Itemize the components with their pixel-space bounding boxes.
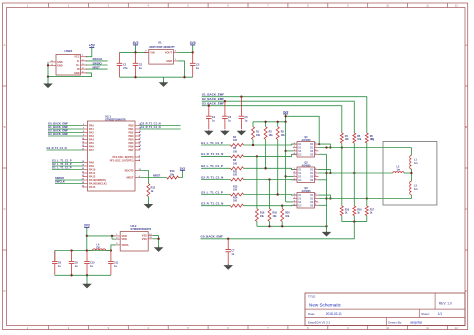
wire L4 to VDDA — [110, 245, 116, 252]
capacitor C3 — [190, 52, 200, 77]
svg-text:3V3: 3V3 — [180, 166, 186, 170]
wire Q3 source to gnd bus — [319, 204, 327, 206]
power 3V3 at U2.2 — [84, 224, 90, 236]
svg-text:10k: 10k — [170, 173, 175, 176]
wire G2_BACK_EMF to MCU — [48, 132, 83, 134]
wire R20 bottom — [281, 221, 283, 226]
svg-text:MCP1700T-3302E/TT: MCP1700T-3302E/TT — [150, 45, 176, 49]
svg-text:10k: 10k — [285, 215, 290, 218]
wire G1_R_T1_C1_N to Q — [244, 154, 298, 157]
ground C6 — [237, 130, 247, 135]
svg-text:10k: 10k — [273, 215, 278, 218]
capacitor C5 — [222, 101, 232, 129]
ground C5 — [220, 130, 230, 135]
svg-text:47u: 47u — [123, 66, 128, 70]
wire NRST to R10 — [140, 177, 167, 179]
wire G2_L_T1_C1_P to Q — [244, 167, 298, 169]
svg-text:G1_BACK_EMF: G1_BACK_EMF — [48, 125, 68, 129]
svg-text:SWCLK: SWCLK — [55, 180, 65, 184]
mcu U2.2 STM32F030K6T6 power part — [116, 224, 154, 251]
junction motor star point — [410, 172, 412, 174]
svg-text:G2_L_T1_C1_P: G2_L_T1_C1_P — [52, 162, 72, 166]
svg-text:3V3: 3V3 — [190, 41, 196, 45]
svg-text:PA14(SWCLK): PA14(SWCLK) — [89, 182, 107, 186]
svg-text:G1_L_T1_C1_P: G1_L_T1_C1_P — [201, 141, 223, 145]
transistor Q3 AO4606 — [293, 187, 319, 208]
wire G2_R_T1_C1_N left — [201, 179, 231, 181]
net label G2_R_T1_C1_N at MCU right — [141, 122, 161, 126]
mcu U2.1 STM32F030K6T6 — [82, 114, 142, 191]
svg-text:+5V: +5V — [89, 44, 96, 48]
net label G2_L_T1_C1_P — [201, 164, 223, 168]
svg-text:PF1-OSC_OUT(PF1): PF1-OSC_OUT(PF1) — [110, 160, 134, 163]
net label NRST — [93, 65, 101, 69]
resistor R19 10k — [268, 209, 278, 222]
wire D- SWCLK — [86, 60, 107, 62]
wire PB0 — [140, 125, 181, 127]
svg-text:VDDA: VDDA — [122, 244, 129, 247]
wire 3V3 to VDD — [86, 235, 116, 239]
resistor R5 100 — [231, 147, 244, 158]
wire R2 to row — [264, 140, 266, 170]
svg-text:PB3: PB3 — [128, 134, 134, 138]
wire G1_L_T1_C1_P to MCU — [52, 169, 83, 171]
resistor R6 10k sense — [365, 133, 374, 143]
svg-text:EasyEDA V5.3.2: EasyEDA V5.3.2 — [308, 320, 331, 324]
wire G3_L_T1_C1_P to MCU — [52, 162, 83, 164]
net label SWDIO at MCU — [55, 176, 64, 180]
svg-text:C1: C1 — [123, 62, 127, 66]
wire G1_BACK_EMF to MCU — [48, 128, 83, 130]
resistor R14 100 — [231, 197, 244, 208]
capacitor C10 — [84, 251, 95, 276]
svg-text:T1: T1 — [371, 137, 375, 141]
svg-text:G1_L_T1_C1_P: G1_L_T1_C1_P — [52, 166, 72, 170]
capacitor C6 — [239, 97, 249, 130]
wire virtual neutral rail — [342, 216, 367, 223]
svg-text:D-: D- — [77, 60, 80, 63]
capacitor C11 — [108, 251, 119, 276]
wire SWDIO to MCU — [55, 179, 83, 181]
svg-text:1m: 1m — [414, 188, 417, 191]
svg-text:PA15: PA15 — [89, 185, 96, 189]
svg-text:D: D — [3, 289, 5, 293]
ground C7 — [223, 264, 233, 269]
net label G2_BACK_EMF at MCU — [48, 129, 68, 133]
inductor L1 — [410, 148, 418, 174]
svg-text:1u: 1u — [139, 66, 142, 70]
svg-text:VOUT: VOUT — [165, 51, 173, 55]
wire regulator ground rail — [120, 76, 193, 78]
ground C4 — [204, 130, 214, 135]
svg-text:100: 100 — [233, 150, 238, 153]
net label G2_R_T1_C1_N — [201, 175, 223, 179]
wire R19 bottom — [269, 221, 271, 226]
svg-text:G3_L_T1_C1_P: G3_L_T1_C1_P — [52, 159, 72, 163]
resistor R10 10k — [167, 170, 179, 179]
svg-text:PB4: PB4 — [128, 138, 134, 142]
svg-text:3V3: 3V3 — [84, 224, 90, 228]
net label G0_BACK_EMF at MCU — [48, 122, 68, 126]
svg-text:Drawn By:: Drawn By: — [388, 320, 402, 324]
resistor R6 100 — [231, 159, 244, 170]
svg-text:G2_BACK_EMF: G2_BACK_EMF — [202, 97, 225, 101]
svg-text:A: A — [4, 43, 6, 47]
resistor R2 10k — [264, 127, 273, 140]
net label G1_R_T1_C1_N — [201, 152, 223, 156]
wire Q2 drain loop — [319, 170, 332, 175]
wire SWCLK to MCU — [55, 183, 83, 185]
wire G3_L_T1_C1_P to Q — [244, 193, 298, 195]
svg-text:PB2: PB2 — [128, 131, 134, 135]
svg-text:G2_R_T1_C1_N: G2_R_T1_C1_N — [201, 175, 223, 179]
resistor R4 100 — [231, 136, 244, 147]
svg-text:GND: GND — [166, 59, 172, 63]
resistor R13 100 — [231, 185, 244, 196]
wire R3 to row — [277, 140, 279, 196]
svg-text:D+: D+ — [76, 64, 80, 67]
svg-text:1/1: 1/1 — [438, 312, 443, 316]
svg-text:10k: 10k — [357, 138, 362, 141]
wire G1_L_T1_C1_P left — [201, 144, 231, 146]
svg-text:PB5: PB5 — [128, 141, 134, 145]
svg-text:VIN: VIN — [150, 51, 154, 55]
power 4V2 gate pullup — [283, 110, 289, 122]
net label G2_L_T1_C1_P at MCU — [52, 162, 72, 166]
wire decoupling cap rail — [55, 249, 111, 261]
resistor R16 1k — [353, 206, 362, 216]
svg-text:C2: C2 — [139, 62, 143, 66]
svg-text:G2_R_T1_C1_N: G2_R_T1_C1_N — [141, 122, 161, 126]
wire VSS to ground — [153, 236, 160, 248]
wire 4V2 source bus — [284, 122, 293, 202]
svg-text:1m: 1m — [397, 169, 400, 172]
wire ground bus right of Qs — [325, 154, 327, 226]
capacitor C1 — [117, 52, 128, 77]
svg-text:ID: ID — [77, 68, 80, 71]
svg-text:D: D — [465, 289, 467, 293]
regulator U1 MCP1700T — [144, 40, 177, 64]
svg-text:BOOT0: BOOT0 — [125, 169, 134, 173]
wire Q2 source to gnd bus — [319, 179, 327, 181]
wire ID NRST — [86, 68, 107, 70]
wire G0_BACK_EMF net — [201, 222, 355, 240]
wire G3_R_T1_C1_N to Q — [244, 205, 298, 207]
svg-text:G1_R_T1_C1_N: G1_R_T1_C1_N — [201, 152, 223, 156]
svg-text:PB1: PB1 — [128, 127, 134, 131]
svg-text:A: A — [465, 43, 467, 47]
wire VCC to +5V — [86, 48, 92, 57]
wire 4V2 feed to Q1 top — [284, 115, 320, 145]
svg-text:C: C — [465, 207, 467, 211]
capacitor C7 — [225, 239, 235, 265]
svg-text:GND: GND — [57, 64, 63, 67]
svg-text:4V2: 4V2 — [133, 41, 139, 45]
svg-text:PA5: PA5 — [89, 141, 94, 145]
resistor R11 100 — [231, 170, 244, 181]
motor connector T1 box — [371, 137, 437, 205]
svg-text:PA10: PA10 — [89, 168, 96, 172]
net label G1_BACK_EMF at MCU — [48, 125, 68, 129]
capacitor C9 — [69, 251, 79, 276]
ground USB — [43, 77, 53, 89]
svg-text:REV: 1.0: REV: 1.0 — [439, 302, 452, 306]
wire phase B — [319, 172, 393, 174]
svg-text:4V2: 4V2 — [283, 110, 289, 114]
svg-text:G1_BACK_EMF: G1_BACK_EMF — [202, 93, 225, 97]
wire G1_BACK_EMF — [202, 96, 367, 133]
capacitor C4 — [206, 106, 216, 130]
svg-text:1u: 1u — [196, 66, 199, 70]
wire U1 GND down — [177, 61, 184, 77]
resistor R4 10k sense — [340, 133, 349, 143]
wire R10 to 3V3 — [179, 171, 183, 178]
svg-text:VSS: VSS — [142, 238, 147, 241]
wire G3_R_T1_C1_N left — [201, 205, 231, 207]
wire G2_L_T1_C1_P left — [201, 167, 231, 169]
net label G3_L_T1_C1_P — [201, 190, 223, 194]
net label SWDIO — [93, 61, 102, 65]
svg-text:GND: GND — [74, 72, 80, 75]
net label G1_R_T1_C1_N at MCU right — [141, 125, 161, 129]
svg-text:USB1: USB1 — [64, 49, 72, 53]
connector USB1 — [50, 49, 87, 75]
svg-text:G3_R_T1_C1_N: G3_R_T1_C1_N — [201, 202, 223, 206]
capacitor C8 — [52, 251, 62, 276]
net label G3_R_T1_C1_N — [201, 202, 223, 206]
net label NRST at MCU — [153, 173, 161, 177]
svg-text:PB6: PB6 — [128, 145, 134, 149]
svg-text:B: B — [4, 125, 6, 129]
power +5V — [89, 44, 96, 48]
wire G0_BACK_EMF to MCU — [48, 125, 83, 127]
net label G2_BACK_EMF — [202, 97, 225, 101]
svg-text:PA7: PA7 — [89, 148, 94, 152]
svg-text:100: 100 — [233, 139, 238, 142]
svg-text:NRST: NRST — [126, 176, 133, 180]
wire pulldown ground rail — [257, 225, 328, 227]
wire sense columns mid — [342, 143, 367, 206]
wire Q3 drain loop — [319, 195, 332, 200]
power 3V3 pullup NRST — [180, 166, 186, 170]
resistor R20 10k — [281, 209, 291, 222]
svg-text:PA13(SWDIO): PA13(SWDIO) — [89, 178, 106, 182]
wire G1_L_T1_C1_P to Q — [244, 144, 298, 146]
transistor Q1 AO4606 — [293, 136, 319, 157]
svg-text:100: 100 — [233, 174, 238, 177]
ground decoupling — [82, 275, 92, 288]
svg-text:PA6: PA6 — [89, 145, 94, 149]
resistor R12 1k — [147, 184, 156, 197]
wire G3_BACK_EMF — [202, 105, 342, 133]
wire phase A — [319, 146, 412, 148]
resistor R15 1k — [340, 206, 349, 216]
wire R20 to row — [281, 206, 283, 209]
wire D+ SWDIO — [86, 64, 107, 66]
wire R18 bottom — [256, 221, 258, 226]
svg-text:G0_BACK_EMF: G0_BACK_EMF — [48, 122, 68, 126]
svg-text:G2_BACK_EMF: G2_BACK_EMF — [48, 129, 68, 133]
wire decoupling bottom rail — [55, 274, 111, 276]
svg-text:NRST: NRST — [153, 173, 161, 177]
wire BOOT0 to R12 — [140, 171, 149, 184]
net label G3_R_T1_C1_N at MCU — [47, 146, 67, 150]
svg-text:100: 100 — [233, 162, 238, 165]
ground bus symbol — [322, 226, 332, 236]
svg-text:PA0: PA0 — [89, 124, 94, 128]
svg-text:TITLE:: TITLE: — [308, 294, 316, 298]
resistor R1 10k — [252, 127, 261, 140]
svg-text:G3_L_T1_C1_P: G3_L_T1_C1_P — [201, 190, 223, 194]
svg-text:PA2: PA2 — [89, 131, 94, 135]
inductor L2 — [393, 165, 412, 173]
svg-text:SWDIO: SWDIO — [55, 176, 64, 180]
svg-text:2018-03-11: 2018-03-11 — [326, 312, 342, 316]
wire R18 to row — [256, 156, 258, 208]
svg-text:PA4: PA4 — [89, 138, 94, 142]
svg-text:G0_BACK_EMF: G0_BACK_EMF — [201, 235, 224, 239]
svg-text:Date:: Date: — [308, 312, 315, 316]
svg-text:100: 100 — [233, 200, 238, 203]
wire R1 to row — [252, 140, 254, 147]
resistor R5 10k sense — [353, 133, 362, 143]
svg-text:100: 100 — [233, 189, 238, 192]
svg-text:G3_R_T1_C1_N: G3_R_T1_C1_N — [47, 146, 67, 150]
inductor L4 ferrite bead — [87, 244, 111, 251]
svg-text:10k: 10k — [269, 134, 274, 137]
resistor R17 1k — [365, 206, 374, 216]
svg-text:aequitas: aequitas — [410, 320, 422, 324]
svg-text:C3: C3 — [196, 62, 200, 66]
svg-text:PB0: PB0 — [128, 124, 134, 128]
power 3V3 regulator output — [190, 41, 196, 53]
wire 4V2 pullup rail — [253, 121, 287, 127]
net label SWCLK — [93, 57, 103, 61]
wire VOUT to 3V3 — [177, 51, 193, 53]
net label G3_BACK_EMF — [202, 102, 225, 106]
wire Q1 drain loop — [319, 144, 332, 149]
svg-text:PB7: PB7 — [128, 148, 134, 152]
svg-text:New Schematic: New Schematic — [309, 302, 342, 307]
wire G3_R_T1_C1_N to MCU — [47, 149, 84, 151]
svg-text:PA11: PA11 — [89, 171, 96, 175]
net label G1_L_T1_C1_P — [201, 141, 223, 145]
svg-text:B: B — [465, 125, 467, 129]
wire G2_L_T1_C1_P to MCU — [52, 165, 83, 167]
svg-text:PA8: PA8 — [89, 161, 94, 165]
svg-text:STM32F030K6T6: STM32F030K6T6 — [131, 227, 152, 231]
ground U2.2 VSS — [154, 247, 164, 252]
svg-text:PA9: PA9 — [89, 164, 94, 168]
wire G1_R_T1_C1_N left — [201, 155, 231, 157]
svg-text:C: C — [3, 207, 5, 211]
svg-text:U1: U1 — [158, 40, 162, 44]
svg-text:Sheet:: Sheet: — [421, 312, 430, 316]
svg-text:VCC: VCC — [74, 56, 79, 59]
svg-text:10k: 10k — [256, 134, 261, 137]
net label G1_BACK_EMF — [202, 93, 225, 97]
svg-text:PA3: PA3 — [89, 134, 94, 138]
resistor R3 10k — [276, 127, 285, 140]
svg-text:1m: 1m — [414, 162, 417, 165]
net label SWCLK at MCU — [55, 180, 65, 184]
svg-text:PA1: PA1 — [89, 127, 94, 131]
wire Q1 source to gnd bus — [319, 153, 327, 155]
ground R12 — [144, 197, 154, 209]
wire 3V3 down to cap rail — [86, 236, 88, 251]
wire R19 to row — [269, 180, 271, 209]
net label G1_L_T1_C1_P at MCU — [52, 166, 72, 170]
resistor R18 10k — [255, 209, 265, 222]
net label G0_BACK_EMF — [201, 235, 224, 239]
ground regulator — [159, 77, 169, 87]
svg-text:VDD: VDD — [122, 238, 127, 241]
wire PB1 — [140, 128, 181, 130]
power 4V2 regulator input — [133, 41, 139, 53]
transistor Q2 AO4606 — [293, 162, 319, 183]
wire G3_BACK_EMF to MCU — [48, 135, 83, 137]
svg-text:G3_BACK_EMF: G3_BACK_EMF — [202, 102, 225, 106]
wire 4V2 rail — [120, 51, 149, 53]
inductor L3 — [410, 173, 418, 199]
svg-text:10k: 10k — [345, 138, 350, 141]
wire USB GND loop — [47, 62, 92, 78]
svg-text:10k: 10k — [281, 134, 286, 137]
wire phase C — [319, 197, 412, 199]
wire G3_L_T1_C1_P left — [201, 194, 231, 196]
svg-text:G2_L_T1_C1_P: G2_L_T1_C1_P — [201, 164, 223, 168]
capacitor C2 — [133, 52, 143, 77]
wire G2_BACK_EMF — [202, 100, 355, 133]
net label G3_L_T1_C1_P at MCU — [52, 159, 72, 163]
wire G2_R_T1_C1_N to Q — [244, 178, 298, 180]
svg-text:10k: 10k — [260, 215, 265, 218]
svg-text:PA12: PA12 — [89, 175, 96, 179]
svg-text:G1_R_T1_C1_N: G1_R_T1_C1_N — [141, 125, 161, 129]
net label G3_BACK_EMF at MCU — [48, 132, 68, 136]
svg-text:G3_BACK_EMF: G3_BACK_EMF — [48, 132, 68, 136]
